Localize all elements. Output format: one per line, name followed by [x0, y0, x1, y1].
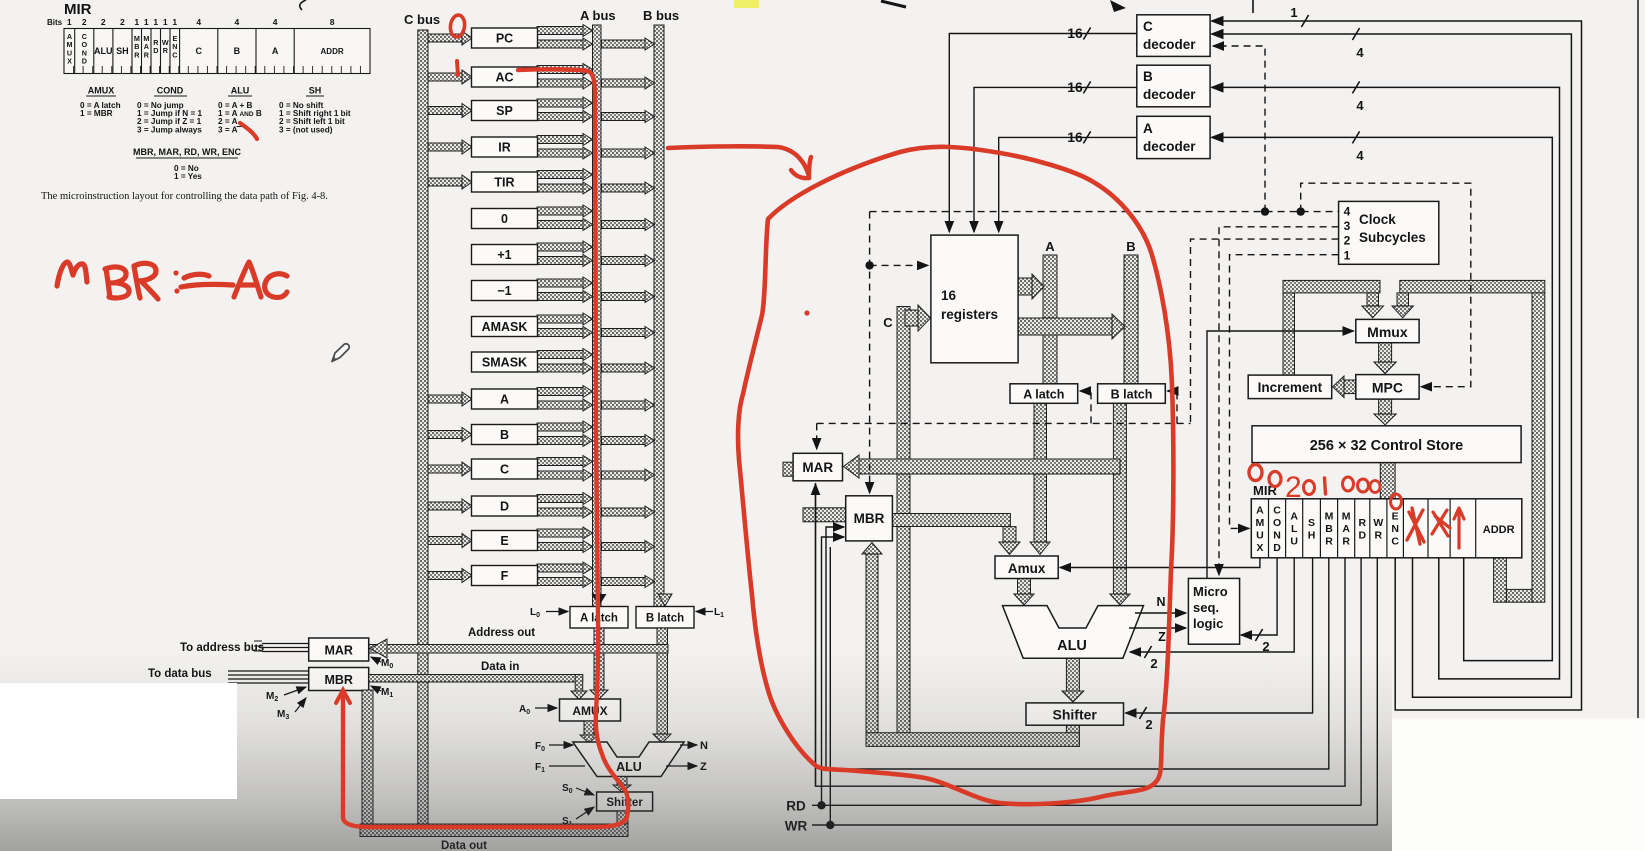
svg-text:C: C — [500, 463, 509, 477]
svg-text:1: 1 — [134, 17, 139, 27]
svg-text:1: 1 — [67, 17, 72, 27]
svg-text:W: W — [1373, 517, 1383, 529]
svg-text:COND: COND — [157, 86, 184, 96]
svg-text:IR: IR — [498, 141, 511, 155]
svg-text:O: O — [1273, 517, 1281, 529]
svg-text:2: 2 — [1344, 234, 1351, 248]
svg-text:Increment: Increment — [1258, 380, 1323, 395]
svg-text:16: 16 — [1067, 25, 1083, 41]
svg-text:D: D — [1273, 542, 1281, 554]
svg-text:U: U — [1290, 536, 1298, 548]
svg-text:R: R — [1325, 536, 1333, 548]
svg-text:R: R — [1358, 517, 1366, 529]
svg-text:decoder: decoder — [1143, 87, 1196, 102]
svg-text:SH: SH — [116, 46, 129, 56]
svg-text:B: B — [234, 46, 241, 56]
svg-text:AC: AC — [495, 71, 513, 85]
svg-text:2: 2 — [120, 17, 125, 27]
svg-text:4: 4 — [1356, 45, 1364, 60]
svg-text:E: E — [500, 534, 508, 548]
svg-text:Micro: Micro — [1193, 584, 1228, 599]
svg-text:D: D — [1358, 529, 1366, 541]
svg-text:B: B — [1325, 523, 1333, 535]
svg-text:1: 1 — [1290, 5, 1297, 20]
svg-text:Address out: Address out — [468, 627, 535, 639]
svg-text:Z: Z — [1158, 630, 1166, 644]
svg-text:1: 1 — [144, 17, 149, 27]
svg-text:2: 2 — [82, 17, 87, 27]
svg-text:R: R — [163, 46, 169, 55]
svg-text:R: R — [144, 50, 150, 59]
svg-text:ALU: ALU — [94, 46, 113, 56]
svg-text:Subcycles: Subcycles — [1359, 230, 1426, 245]
svg-text:B latch: B latch — [1111, 387, 1153, 401]
svg-text:+1: +1 — [497, 248, 511, 262]
svg-text:MPC: MPC — [1372, 380, 1403, 396]
svg-text:R: R — [1375, 529, 1383, 541]
svg-text:M: M — [1342, 511, 1351, 523]
svg-text:decoder: decoder — [1143, 37, 1196, 52]
svg-text:4: 4 — [196, 17, 201, 27]
svg-text:D: D — [153, 46, 158, 55]
svg-text:AMASK: AMASK — [482, 320, 528, 334]
svg-text:1: 1 — [1344, 248, 1351, 262]
svg-text:S: S — [1308, 517, 1315, 529]
svg-text:A: A — [500, 393, 509, 407]
svg-text:16: 16 — [1067, 79, 1083, 95]
svg-text:B bus: B bus — [643, 8, 679, 23]
svg-text:8: 8 — [330, 17, 335, 27]
svg-text:−1: −1 — [497, 284, 511, 298]
svg-text:1: 1 — [153, 17, 158, 27]
svg-text:ADDR: ADDR — [1483, 524, 1515, 536]
svg-text:N: N — [1156, 595, 1165, 609]
svg-text:3 = Jump always: 3 = Jump always — [137, 125, 202, 134]
svg-text:1 = MBR: 1 = MBR — [80, 109, 113, 118]
svg-text:3 = (not used): 3 = (not used) — [279, 125, 333, 134]
svg-text:MBR, MAR, RD, WR, ENC: MBR, MAR, RD, WR, ENC — [133, 147, 241, 157]
svg-text:2: 2 — [101, 17, 106, 27]
svg-text:E: E — [1392, 511, 1399, 523]
svg-text:A: A — [1342, 523, 1350, 535]
svg-text:16: 16 — [941, 288, 957, 303]
svg-text:0: 0 — [501, 212, 508, 226]
svg-text:Amux: Amux — [1008, 561, 1046, 576]
svg-text:L: L — [1291, 523, 1298, 535]
svg-text:N: N — [1391, 523, 1399, 535]
svg-text:SH: SH — [309, 86, 322, 96]
svg-text:SP: SP — [496, 104, 513, 118]
svg-text:A: A — [1143, 121, 1153, 136]
svg-text:3 = A: 3 = A — [218, 125, 238, 134]
svg-text:1 = Yes: 1 = Yes — [174, 172, 202, 181]
svg-text:F: F — [501, 569, 509, 583]
svg-text:A: A — [1256, 504, 1264, 516]
svg-text:N: N — [1273, 529, 1281, 541]
svg-text:M: M — [1256, 517, 1265, 529]
svg-text:seq.: seq. — [1193, 600, 1219, 615]
svg-text:Bits: Bits — [47, 18, 63, 27]
svg-text:A bus: A bus — [580, 8, 616, 23]
svg-text:X: X — [67, 57, 72, 66]
svg-text:B: B — [500, 428, 509, 442]
svg-text:H: H — [1308, 529, 1316, 541]
svg-text:ALU: ALU — [231, 86, 250, 96]
svg-text:decoder: decoder — [1143, 139, 1196, 154]
svg-text:C: C — [195, 46, 202, 56]
svg-text:MBR: MBR — [854, 511, 885, 526]
svg-text:B: B — [1143, 69, 1153, 84]
svg-text:MAR: MAR — [802, 460, 833, 475]
svg-text:4: 4 — [235, 17, 240, 27]
svg-text:D: D — [82, 57, 87, 66]
svg-text:logic: logic — [1193, 616, 1223, 631]
svg-text:MIR: MIR — [64, 1, 92, 18]
svg-text:AMUX: AMUX — [88, 86, 115, 96]
svg-text:16: 16 — [1067, 129, 1083, 145]
svg-text:C: C — [1391, 536, 1399, 548]
svg-text:B latch: B latch — [646, 613, 684, 625]
svg-text:A: A — [1290, 511, 1298, 523]
svg-text:X: X — [1256, 542, 1263, 554]
svg-text:1: 1 — [163, 17, 168, 27]
svg-text:3: 3 — [1344, 219, 1351, 233]
svg-text:R: R — [134, 50, 140, 59]
svg-text:C: C — [883, 315, 893, 330]
svg-text:C: C — [1273, 504, 1281, 516]
svg-text:U: U — [1256, 529, 1264, 541]
svg-text:4: 4 — [273, 17, 278, 27]
svg-text:R: R — [1342, 536, 1350, 548]
svg-text:C bus: C bus — [404, 12, 440, 27]
svg-text:Mmux: Mmux — [1367, 324, 1408, 340]
svg-text:M: M — [1325, 511, 1334, 523]
svg-text:D: D — [500, 500, 509, 514]
svg-text:PC: PC — [496, 32, 513, 46]
svg-text:Clock: Clock — [1359, 212, 1396, 227]
svg-text:ADDR: ADDR — [321, 47, 344, 56]
svg-text:C: C — [172, 50, 177, 59]
svg-text:SMASK: SMASK — [482, 356, 527, 370]
svg-text:A: A — [272, 46, 279, 56]
svg-text:The microinstruction layout fo: The microinstruction layout for controll… — [41, 191, 328, 202]
svg-text:1: 1 — [172, 17, 177, 27]
svg-text:C: C — [1143, 19, 1153, 34]
svg-text:4: 4 — [1356, 148, 1364, 163]
svg-text:256 × 32 Control Store: 256 × 32 Control Store — [1310, 438, 1464, 454]
svg-text:2: 2 — [1285, 471, 1302, 504]
svg-text:4: 4 — [1344, 205, 1351, 219]
svg-text:4: 4 — [1356, 98, 1364, 113]
svg-text:TIR: TIR — [494, 176, 514, 190]
svg-text:A: A — [1045, 239, 1055, 254]
svg-text:registers: registers — [941, 307, 998, 322]
svg-text:A latch: A latch — [1023, 387, 1064, 401]
svg-text:B: B — [1126, 239, 1135, 254]
